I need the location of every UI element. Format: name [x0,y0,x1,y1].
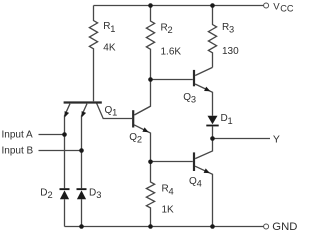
svg-text:V: V [273,2,280,13]
arrow: Q4 emitter [204,168,210,173]
wire: Q1 emitter 1 down to D2 [65,104,71,189]
wire: Input A lead [39,134,65,136]
wire: output Y [213,138,271,140]
resistor R2 [146,6,154,80]
transistor Q2 base bar [132,110,134,127]
wire: Q2 collector diagonal [134,106,150,115]
wire: VCC top rail [94,5,264,7]
svg-text:Input B: Input B [2,145,34,156]
svg-text:4: 4 [169,186,174,196]
label R3 [222,22,234,35]
svg-text:D: D [40,187,47,198]
label VCC [273,2,294,14]
svg-text:Input A: Input A [2,129,33,140]
label Q3 [183,92,196,105]
transistor Q3 base bar [193,70,195,86]
junction dot: Input A node [62,132,67,137]
svg-text:GND: GND [272,221,297,233]
junction dot: R4 on GND rail [148,224,153,229]
wire: D2 cathode to GND rail [64,199,66,226]
terminal: VCC [264,3,269,8]
transistor Q4 base bar [193,152,195,171]
svg-text:1.6K: 1.6K [161,46,182,57]
junction dot: R2 top rail [148,3,153,8]
wire: Q3 base from R2 junction [151,79,193,81]
wire: Q1 emitter 2 down to D3 [82,104,88,189]
label R2 [161,22,173,35]
svg-text:3: 3 [229,25,234,35]
diode D3 [77,188,87,190]
resistor R3 [208,6,216,68]
wire: D1 cathode to Y node [212,126,214,138]
svg-text:2: 2 [168,25,173,35]
diode D1 [208,116,218,125]
label R1 [103,21,115,34]
label R4 [162,184,174,197]
svg-text:2: 2 [48,190,53,200]
terminal: GND [264,224,269,229]
wire: D3 cathode to GND rail [81,199,83,226]
label Q1 [105,105,118,118]
svg-text:2: 2 [137,135,142,145]
svg-text:130: 130 [222,46,239,57]
wire: Input B lead [39,150,82,152]
resistor R1 [89,6,97,102]
arrow: Q1 emitter 1 [65,111,70,117]
diode D2 [60,188,70,190]
svg-text:4K: 4K [103,43,116,54]
wire: GND bottom rail [65,226,264,228]
svg-text:Y: Y [273,134,280,146]
svg-text:1: 1 [228,116,233,126]
label D1 [221,113,233,126]
label D3 [89,187,101,200]
svg-text:1: 1 [112,108,117,118]
wire: Q1 collector to Q2 base [97,103,133,119]
arrow: Q2 emitter [142,127,148,132]
label D2 [40,187,52,200]
arrow: Q3 emitter [204,87,210,92]
wire: Q3 collector to R3 [195,67,212,75]
arrow: Q1 emitter 2 [82,111,87,117]
svg-text:1: 1 [110,24,115,34]
junction dot: R2 / Q3 base node [148,77,153,82]
wire: Q4 collector to Y node [195,139,212,159]
svg-text:D: D [89,187,96,198]
svg-text:CC: CC [280,4,294,14]
wire: Q3 emitter down to D1 [195,84,212,116]
svg-text:4: 4 [197,179,202,189]
junction dot: Q2 emitter / R4 / Q4 base node [148,160,153,165]
label Q2 [129,132,142,145]
junction dot: Q4 emitter on GND rail [210,224,215,229]
resistor R4 [146,162,154,227]
svg-text:1K: 1K [162,205,175,216]
wire: R2 junction down to Q2 collector [134,80,150,115]
junction dot: D3 on GND rail [79,224,84,229]
svg-text:3: 3 [96,190,101,200]
wire: Q4 base from phase-splitter node [151,161,193,163]
label Q4 [189,176,202,189]
wire: Q4 emitter to GND rail [195,166,212,226]
junction dot: Input B node [79,148,84,153]
svg-text:3: 3 [191,95,196,105]
wire: Q2 emitter down to node [134,125,151,162]
junction dot: R3 top rail [210,3,215,8]
transistor Q1 base bar [64,101,102,103]
junction dot: Y output node [210,136,215,141]
